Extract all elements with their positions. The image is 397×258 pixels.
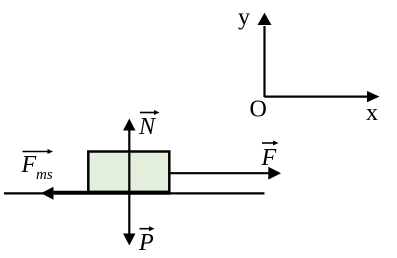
svg-text:N: N	[138, 114, 157, 140]
svg-text:ms: ms	[36, 167, 53, 183]
friction force F_ms label	[21, 149, 54, 183]
x-axis	[265, 91, 380, 102]
y-axis	[258, 13, 272, 97]
svg-text:P: P	[138, 230, 154, 256]
ground line	[4, 192, 265, 194]
svg-text:x: x	[366, 100, 378, 126]
force P arrow (weight, downward)	[123, 193, 135, 246]
friction force F_ms arrow (leftward)	[41, 187, 170, 200]
force F arrow (applied force, rightward)	[170, 167, 281, 180]
block (mass)	[88, 152, 169, 193]
svg-text:y: y	[238, 5, 250, 31]
force N arrow (normal force, upward)	[123, 119, 135, 194]
force N label	[138, 110, 160, 140]
force P label	[138, 226, 155, 256]
svg-text:O: O	[250, 97, 267, 123]
svg-text:F: F	[21, 152, 37, 178]
force F label	[261, 141, 279, 172]
svg-text:F: F	[261, 145, 277, 171]
